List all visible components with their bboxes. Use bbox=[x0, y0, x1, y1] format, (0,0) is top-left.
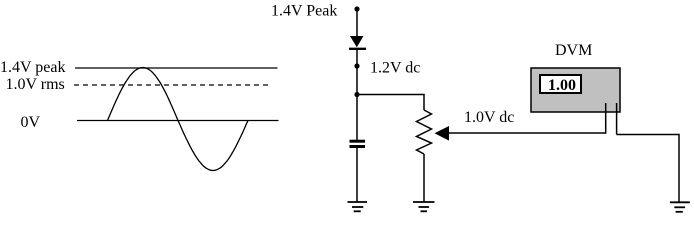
0V axis line bbox=[77, 120, 279, 122]
ground (potentiometer) bbox=[413, 201, 435, 203]
node below diode bbox=[354, 63, 359, 68]
DVM meter box bbox=[531, 68, 620, 112]
ground (DVM) bbox=[670, 201, 690, 203]
svg-text:1.0V dc: 1.0V dc bbox=[464, 109, 514, 126]
svg-text:0V: 0V bbox=[21, 114, 41, 131]
wire DVM to ground bbox=[617, 135, 679, 203]
svg-text:1.00: 1.00 bbox=[548, 77, 576, 94]
potentiometer R1 zigzag bbox=[417, 110, 432, 154]
wire potentiometer to ground bbox=[423, 154, 425, 202]
rms dashed line bbox=[74, 84, 270, 86]
DVM display bbox=[540, 75, 581, 93]
svg-text:1.4V Peak: 1.4V Peak bbox=[271, 3, 337, 20]
DVM left lead bbox=[605, 103, 607, 134]
wire capacitor to ground bbox=[356, 148, 358, 202]
peak level line bbox=[75, 67, 278, 69]
node junction bbox=[354, 92, 359, 97]
wiper arrow bbox=[435, 126, 450, 141]
wire junction to potentiometer bbox=[357, 95, 424, 111]
wire wiper to DVM bbox=[449, 132, 606, 134]
capacitor C1 bbox=[350, 140, 366, 143]
svg-text:1.4V peak: 1.4V peak bbox=[0, 59, 65, 76]
DVM right lead bbox=[616, 103, 618, 135]
svg-text:1.2V dc: 1.2V dc bbox=[370, 60, 420, 77]
wire input to diode bbox=[356, 9, 358, 37]
svg-text:1.0V rms: 1.0V rms bbox=[6, 76, 65, 93]
diode D1 bbox=[350, 36, 364, 47]
node top input bbox=[354, 6, 359, 11]
wire diode to junction bbox=[356, 50, 358, 140]
ground (capacitor) bbox=[348, 201, 368, 203]
svg-text:DVM: DVM bbox=[555, 42, 592, 59]
sine wave bbox=[108, 68, 249, 171]
